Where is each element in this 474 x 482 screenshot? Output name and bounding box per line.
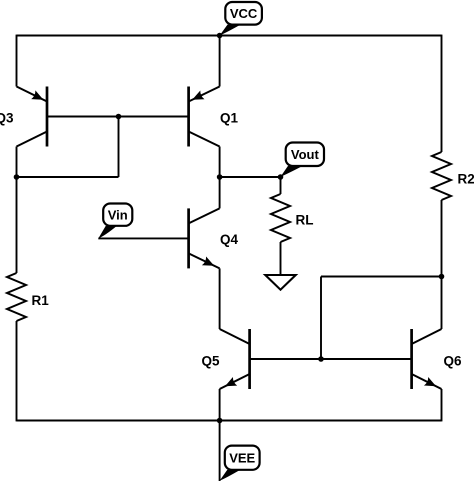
resistor R2	[432, 152, 451, 200]
flag Vout	[281, 166, 303, 177]
transistor Q3	[46, 87, 49, 147]
junction Q1 collector / Vout node	[217, 174, 223, 180]
wire left vertical to R1	[16, 177, 18, 273]
wire R1 bottom to VEE rail	[16, 321, 18, 421]
transistor Q6	[410, 329, 413, 389]
wire VEE stub	[219, 421, 221, 482]
ground	[265, 275, 295, 290]
wire RL to ground	[280, 242, 282, 275]
svg-text:R2: R2	[458, 172, 474, 187]
resistor RL	[271, 194, 290, 242]
wire Q1 emitter to VCC rail	[219, 35, 221, 87]
wire Q4 emitter down to Q5 collector	[219, 268, 221, 329]
svg-text:Q6: Q6	[444, 354, 463, 369]
transistor Q4	[187, 208, 190, 268]
wire Vin to Q4 base	[98, 237, 188, 239]
wire base-collector tie horizontal	[16, 176, 119, 178]
wire output node horizontal	[220, 176, 281, 178]
svg-text:RL: RL	[296, 213, 314, 228]
transistor Q5	[248, 329, 251, 389]
wire Q6 emitter to VEE rail	[441, 389, 443, 421]
wire Q6 collector up	[441, 277, 443, 330]
wire Q1 collector drop	[219, 147, 221, 178]
junction Q5/Q6 base node	[318, 356, 324, 362]
junction Q3 collector node	[14, 174, 20, 180]
svg-text:Q1: Q1	[220, 111, 239, 126]
flag Vin	[98, 226, 117, 239]
svg-text:R1: R1	[32, 293, 50, 308]
svg-text:VEE: VEE	[229, 451, 255, 466]
junction VEE tap	[217, 418, 223, 424]
svg-text:Q4: Q4	[220, 232, 239, 247]
wire Q5 emitter to VEE rail	[219, 389, 221, 421]
wire base tie horizontal	[321, 276, 442, 278]
flag VEE	[220, 470, 241, 481]
svg-text:Vin: Vin	[108, 207, 128, 222]
svg-text:Q5: Q5	[202, 354, 221, 369]
wire bottom VEE rail	[17, 420, 442, 422]
junction Q6 collector node	[439, 274, 445, 280]
junction VCC tap	[217, 33, 223, 39]
wire Q5 base to Q6 base	[250, 358, 412, 360]
svg-text:Q3: Q3	[0, 111, 14, 126]
flag VCC	[220, 25, 241, 36]
wire left vertical to Q3 emitter	[16, 35, 18, 87]
wire Vout to RL	[280, 177, 282, 194]
wire base-collector tie vertical	[118, 117, 120, 178]
junction Q1/Q3 base node	[116, 114, 122, 120]
svg-text:VCC: VCC	[230, 6, 258, 21]
svg-text:Vout: Vout	[291, 147, 320, 162]
wire top VCC rail	[17, 35, 442, 37]
wire Q3 collector drop	[16, 147, 18, 178]
junction Vout tap	[278, 174, 284, 180]
wire R2 to Q6 collector node	[441, 200, 443, 277]
wire Q3 base to Q1 base	[47, 116, 189, 118]
wire base tie vertical	[320, 277, 322, 360]
resistor R1	[7, 273, 26, 321]
wire Q4 collector up	[219, 177, 221, 208]
transistor Q1	[187, 87, 190, 147]
wire right vertical from VCC rail to R2	[441, 35, 443, 152]
